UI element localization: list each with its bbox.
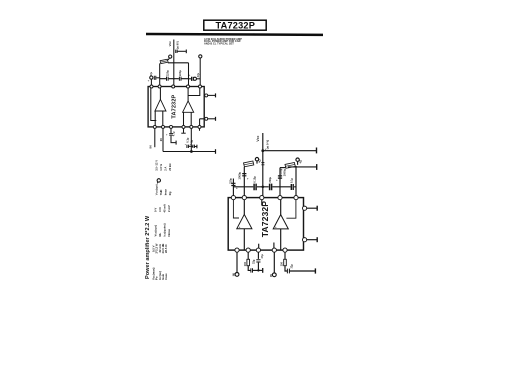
svg-text:+: + bbox=[248, 266, 250, 269]
wire speaker left down to pin 2 bbox=[159, 63, 161, 86]
svg-text:+: + bbox=[166, 134, 168, 137]
resistor R1 bbox=[247, 259, 250, 265]
svg-text:470μ: 470μ bbox=[279, 168, 283, 174]
capacitor C5 bbox=[192, 77, 194, 81]
svg-text:Power amplifier 2*2.2 W: Power amplifier 2*2.2 W bbox=[145, 215, 151, 279]
wire pin 2 vertical bbox=[243, 167, 245, 198]
capacitor C2 bbox=[167, 77, 169, 81]
svg-text:0.1μ: 0.1μ bbox=[291, 178, 294, 183]
svg-text:2 A: 2 A bbox=[163, 167, 167, 171]
wire pin7 down bbox=[247, 252, 249, 259]
svg-text:RL: RL bbox=[158, 232, 162, 236]
capacitor C7 bbox=[187, 145, 189, 148]
svg-text:+: + bbox=[148, 78, 150, 82]
wire C15 down bbox=[257, 263, 259, 271]
wire pin 4 to speaker bbox=[280, 167, 285, 169]
ground rail terminal bar bbox=[215, 149, 217, 154]
input terminal T8 bbox=[272, 273, 276, 277]
pin 8 bbox=[256, 248, 260, 252]
input source tail bbox=[156, 182, 159, 184]
svg-text:+: + bbox=[276, 178, 278, 182]
wire pin11 stub bbox=[199, 129, 201, 131]
svg-text:Imax: Imax bbox=[163, 189, 167, 196]
svg-text:Case: Case bbox=[164, 273, 168, 280]
wire pin8 down bbox=[257, 252, 259, 259]
svg-text:1.0 %: 1.0 % bbox=[159, 163, 163, 170]
wire feedback right bbox=[286, 198, 296, 219]
svg-text:TA7232P: TA7232P bbox=[171, 95, 177, 119]
pin 1 bbox=[150, 85, 153, 88]
pin 8 bbox=[170, 125, 173, 128]
pin 11 bbox=[303, 206, 307, 210]
wire right cluster bbox=[189, 78, 192, 80]
wire bias horizontal bbox=[233, 186, 296, 188]
pin 12 bbox=[205, 94, 208, 97]
pin 3 bbox=[260, 196, 264, 200]
wire R1 down bbox=[248, 266, 250, 271]
pin 4 bbox=[278, 196, 282, 200]
terminal bar left chain bbox=[262, 268, 264, 273]
pin 4 bbox=[187, 85, 190, 88]
wire pin6 input bbox=[154, 129, 156, 148]
svg-text:TA7232P: TA7232P bbox=[216, 20, 256, 30]
wire feedback left bbox=[233, 198, 239, 218]
ground rail bbox=[163, 151, 215, 153]
op-amp A3 bbox=[237, 214, 252, 228]
svg-text:32μ: 32μ bbox=[290, 264, 293, 269]
capacitor C8 bbox=[193, 145, 195, 148]
capacitor C11 bbox=[254, 184, 256, 191]
output terminal T4 bbox=[193, 77, 196, 80]
pin 10 bbox=[190, 125, 193, 128]
svg-text:20: 20 bbox=[159, 138, 163, 142]
op-amp A1 bbox=[155, 99, 166, 111]
svg-text:THD: THD bbox=[159, 190, 163, 196]
svg-text:20 kΩ: 20 kΩ bbox=[168, 163, 172, 171]
op-amp IC U1 TA7232P bbox=[148, 87, 204, 127]
capacitor C13 bbox=[291, 184, 293, 190]
svg-text:AND B CL TYPICAL SET: AND B CL TYPICAL SET bbox=[204, 42, 234, 46]
svg-text:1000μ: 1000μ bbox=[282, 168, 286, 176]
wire T6 tick bbox=[297, 161, 299, 164]
speaker SP1 bbox=[160, 59, 168, 64]
svg-text:(at 9V): (at 9V) bbox=[175, 41, 179, 49]
wire A2 outputs down bbox=[184, 112, 192, 127]
svg-text:+: + bbox=[275, 225, 277, 229]
svg-text:TA7232P: TA7232P bbox=[260, 201, 270, 238]
cap marks on Vcc line bbox=[261, 163, 264, 165]
input source symbol bbox=[157, 179, 160, 182]
pin 7 bbox=[162, 125, 165, 128]
wire pin10 down bbox=[284, 252, 286, 259]
output terminal T3 bbox=[150, 76, 153, 79]
op-amp A2 bbox=[183, 101, 194, 112]
svg-text:0.15μ: 0.15μ bbox=[254, 176, 257, 183]
svg-text:Rg: Rg bbox=[168, 191, 172, 195]
wire R2 down bbox=[285, 266, 287, 271]
wire Vcc vertical bbox=[262, 133, 264, 198]
wire internal feedback left bbox=[151, 87, 157, 121]
pin 5 bbox=[199, 85, 202, 88]
wire internal stub b4 bbox=[273, 243, 275, 251]
terminal bar pin13 bbox=[215, 117, 217, 121]
junction bias/Vcc bbox=[262, 186, 265, 189]
speaker SP3 bbox=[285, 163, 295, 169]
junction C15/ground run bbox=[257, 269, 259, 271]
terminal bar pin12 bbox=[215, 93, 217, 97]
wire A4 output down bbox=[280, 229, 282, 250]
wire pin4 to A2 input bbox=[187, 87, 189, 101]
wire T4 to pin5 line bbox=[197, 78, 201, 80]
capacitor C16 bbox=[287, 269, 289, 274]
wire pin11 out bbox=[307, 207, 317, 209]
pin 5 bbox=[294, 196, 298, 200]
wire pin13 out bbox=[208, 118, 215, 120]
terminal T5 bbox=[255, 158, 258, 161]
wire pin7 to ground rail bbox=[162, 129, 164, 152]
title box bbox=[204, 20, 266, 30]
wire C4 to pin2 line bbox=[156, 77, 160, 79]
speaker SP2 bbox=[244, 161, 254, 167]
wire right vertical to pin 4 bbox=[188, 63, 190, 87]
svg-text:100: 100 bbox=[243, 261, 247, 266]
output terminal T2 bbox=[199, 55, 202, 58]
capacitor C15 bbox=[256, 260, 260, 262]
svg-text:IN: IN bbox=[148, 146, 152, 149]
out rail 2 bbox=[288, 166, 316, 168]
svg-text:47μ: 47μ bbox=[150, 72, 153, 77]
wire to ground terminal bbox=[177, 50, 186, 52]
pin 9 bbox=[272, 248, 276, 252]
terminal bar pin8 chain bbox=[175, 141, 177, 145]
svg-text:220μ: 220μ bbox=[269, 176, 272, 182]
wire right internal pin bbox=[200, 119, 205, 127]
wire pin10 down bbox=[190, 129, 192, 152]
capacitor C3 bbox=[179, 77, 181, 81]
pin 9 bbox=[182, 125, 185, 128]
resistor R2 bbox=[284, 259, 287, 265]
svg-text:47μ: 47μ bbox=[197, 73, 200, 78]
svg-text:47μ: 47μ bbox=[261, 254, 264, 259]
wire Vcc vertical bbox=[173, 40, 175, 87]
svg-text:4Ω: 4Ω bbox=[299, 160, 303, 164]
svg-text:Vcc: Vcc bbox=[256, 135, 260, 141]
wire internal feedback right bbox=[188, 87, 200, 96]
pin 3 bbox=[172, 85, 175, 88]
capacitor C6 bbox=[169, 134, 173, 136]
pin 6 bbox=[235, 248, 239, 252]
wire pin12 out bbox=[208, 94, 215, 96]
capacitor C4 bbox=[154, 76, 156, 80]
wire C14 to ground bar bbox=[253, 269, 263, 271]
svg-text:28.5 Ω: 28.5 Ω bbox=[164, 244, 168, 253]
capacitor C14 bbox=[251, 268, 253, 272]
pin 7 bbox=[246, 248, 250, 252]
svg-text:+: + bbox=[284, 266, 286, 269]
wire pin12 out bbox=[307, 239, 317, 241]
pin 11 bbox=[198, 125, 201, 128]
svg-text:Icc(quies): Icc(quies) bbox=[163, 223, 167, 236]
op-amp A4 bbox=[273, 215, 288, 229]
wire pin 1 vertical bbox=[232, 179, 234, 198]
svg-text:5μ: 5μ bbox=[190, 139, 194, 142]
svg-text:45 mA: 45 mA bbox=[163, 204, 167, 212]
svg-text:4Ω: 4Ω bbox=[258, 159, 262, 163]
wire pin3 stub bbox=[261, 198, 263, 206]
svg-text:+: + bbox=[185, 144, 187, 146]
wire pin 4 vertical bbox=[279, 168, 281, 198]
terminal bar pin11 bbox=[316, 206, 318, 211]
terminal bar Vcc rail bbox=[316, 148, 318, 154]
wire C7 stub bbox=[188, 145, 191, 147]
wire pin9 stub bbox=[183, 129, 185, 133]
output terminal T1 bbox=[169, 55, 172, 58]
input terminal T7 bbox=[235, 273, 239, 277]
svg-text:Vcc: Vcc bbox=[168, 41, 172, 47]
junction pin10 / rail bbox=[190, 150, 193, 153]
IC U2 TA7232P bbox=[228, 198, 303, 251]
wire pin4 to A4 bbox=[280, 198, 282, 215]
svg-text:Vcc(opr): Vcc(opr) bbox=[154, 225, 158, 236]
terminal bar rail2 bbox=[316, 164, 318, 170]
svg-text:Vcc(opr): Vcc(opr) bbox=[154, 184, 158, 195]
capacitor C17 bbox=[270, 184, 272, 191]
svg-text:2 mV: 2 mV bbox=[167, 205, 171, 212]
svg-text:3.5~12 V: 3.5~12 V bbox=[154, 160, 158, 171]
pin 1 bbox=[231, 196, 235, 200]
wire pin8 chain bbox=[171, 129, 176, 143]
capacitor C9 bbox=[242, 174, 246, 176]
ground tick pin9 bbox=[181, 132, 185, 134]
svg-text:220μ: 220μ bbox=[178, 70, 182, 76]
terminal T6 bbox=[296, 158, 299, 161]
junction Vcc / bootstrap row bbox=[173, 78, 175, 80]
capacitor C10 bbox=[231, 183, 235, 185]
svg-text:1000μ: 1000μ bbox=[238, 172, 242, 180]
capacitor C1 (Vcc bypass) bbox=[176, 50, 177, 53]
wire C8 stub bbox=[191, 145, 196, 147]
wire speaker to right vertical bbox=[168, 62, 189, 64]
svg-text:+: + bbox=[247, 176, 249, 180]
pin 13 bbox=[205, 117, 208, 120]
wire T3 to pin 1 bbox=[150, 79, 152, 86]
wire A1 outputs down bbox=[155, 111, 163, 127]
wire pin9 input bbox=[273, 252, 275, 273]
Vcc rail to terminal bbox=[263, 150, 316, 152]
svg-text:+: + bbox=[239, 225, 241, 229]
svg-text:IN: IN bbox=[269, 274, 273, 277]
svg-text:Noise: Noise bbox=[167, 228, 171, 236]
junction Vcc rail bbox=[261, 149, 264, 152]
junction pin5/rail2 bbox=[295, 166, 297, 168]
wire pin6 input bbox=[236, 252, 238, 272]
ground run right bbox=[289, 270, 315, 272]
svg-text:220μ: 220μ bbox=[165, 70, 169, 76]
wire pin 5 vertical bbox=[295, 167, 297, 198]
wire T5 tick bbox=[256, 161, 258, 164]
wire T1 to speaker bbox=[168, 58, 169, 60]
header group bbox=[146, 20, 323, 45]
svg-text:0.1μ: 0.1μ bbox=[185, 137, 189, 143]
terminal bar right chain bbox=[314, 268, 316, 273]
svg-text:+: + bbox=[189, 74, 191, 77]
svg-text:IN: IN bbox=[231, 273, 235, 276]
capacitor C12 bbox=[278, 176, 282, 178]
wire pin2 to A3 bbox=[243, 198, 245, 215]
svg-text:150: 150 bbox=[280, 261, 284, 266]
wire internal stub b3 bbox=[258, 244, 260, 250]
wire bootstrap row bbox=[160, 78, 189, 80]
svg-text:220μ: 220μ bbox=[229, 178, 233, 184]
pin 2 bbox=[242, 196, 246, 200]
terminal bar pin12 bbox=[316, 237, 318, 242]
svg-text:4.7μ: 4.7μ bbox=[173, 131, 176, 136]
pin 12 bbox=[303, 238, 307, 242]
pin 2 bbox=[158, 85, 161, 88]
svg-text:4 Ω: 4 Ω bbox=[158, 207, 162, 212]
svg-text:9 V: 9 V bbox=[154, 208, 158, 212]
pin 10 bbox=[283, 248, 287, 252]
wire T2 down to pin 5 bbox=[199, 58, 201, 87]
wire A3 output down bbox=[243, 229, 245, 250]
wire pin2 to A1 input bbox=[159, 87, 161, 100]
thick rule bbox=[146, 33, 323, 36]
terminal bar C8 bbox=[196, 145, 198, 149]
ground terminal bar bbox=[185, 50, 187, 54]
pin 6 bbox=[153, 125, 156, 128]
